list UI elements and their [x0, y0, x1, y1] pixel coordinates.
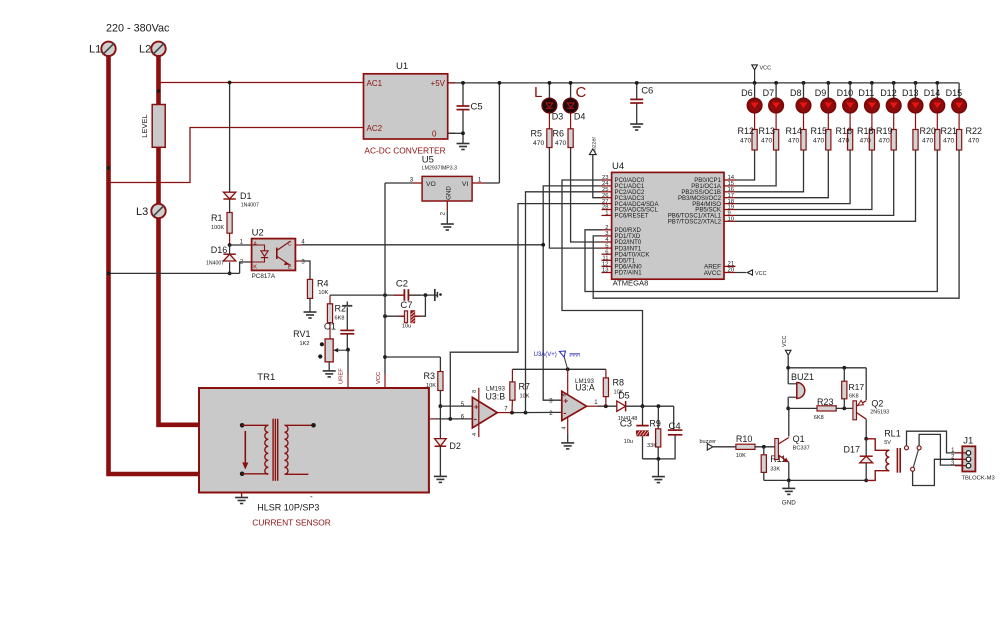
svg-text:L3: L3	[136, 206, 148, 218]
svg-text:11: 11	[602, 256, 608, 262]
svg-text:470: 470	[838, 137, 849, 144]
svg-text:470: 470	[761, 137, 772, 144]
svg-text:D5: D5	[618, 391, 630, 401]
svg-text:AVCC: AVCC	[704, 270, 722, 277]
svg-text:470: 470	[922, 137, 933, 144]
svg-text:R14: R14	[786, 126, 803, 136]
svg-text:HLSR 10P/SP3: HLSR 10P/SP3	[257, 503, 319, 513]
svg-text:U2: U2	[252, 228, 264, 239]
svg-text:VCC: VCC	[376, 372, 382, 384]
svg-text:D4: D4	[574, 112, 586, 122]
svg-text:C2: C2	[396, 279, 408, 290]
svg-text:R18: R18	[857, 126, 874, 136]
svg-text:D8: D8	[790, 88, 802, 98]
svg-text:D9: D9	[815, 88, 827, 98]
svg-text:PB7/TOSC2/XTAL2: PB7/TOSC2/XTAL2	[668, 219, 722, 226]
svg-text:4: 4	[562, 427, 568, 430]
svg-text:2: 2	[605, 225, 608, 231]
svg-text:5V: 5V	[884, 440, 891, 446]
svg-text:R1: R1	[211, 213, 223, 223]
svg-text:D16: D16	[211, 245, 228, 255]
svg-text:L2: L2	[139, 44, 151, 56]
svg-text:0: 0	[432, 129, 437, 138]
svg-text:C5: C5	[471, 102, 483, 113]
svg-text:VI: VI	[462, 181, 469, 188]
svg-text:U1: U1	[396, 61, 408, 72]
svg-text:PC6/RESET: PC6/RESET	[615, 213, 649, 220]
svg-text:470: 470	[555, 140, 566, 147]
svg-text:D12: D12	[880, 88, 897, 98]
svg-text:1N4007: 1N4007	[241, 203, 259, 209]
svg-text:U5: U5	[422, 155, 434, 166]
svg-text:100K: 100K	[211, 225, 224, 231]
svg-text:470: 470	[943, 137, 954, 144]
svg-text:R5: R5	[531, 129, 543, 139]
svg-text:U3:B: U3:B	[486, 391, 506, 401]
svg-text:-: -	[474, 414, 477, 425]
svg-text:BUZ1: BUZ1	[791, 372, 814, 382]
svg-text:TR1: TR1	[257, 372, 275, 383]
svg-text:4: 4	[472, 433, 478, 436]
svg-text:1K2: 1K2	[300, 341, 310, 347]
svg-text:U4: U4	[612, 161, 624, 172]
svg-text:12: 12	[602, 262, 609, 268]
svg-text:GND: GND	[446, 186, 453, 200]
svg-text:R19: R19	[876, 126, 893, 136]
svg-text:R13: R13	[759, 126, 776, 136]
svg-text:3: 3	[410, 177, 414, 184]
svg-text:C1: C1	[324, 322, 336, 333]
svg-text:1N4007: 1N4007	[206, 261, 224, 267]
svg-text:8: 8	[472, 390, 478, 393]
svg-text:VCC: VCC	[760, 66, 772, 72]
svg-text:D7: D7	[763, 88, 775, 98]
svg-text:2N5193: 2N5193	[870, 409, 889, 415]
svg-text:D2: D2	[449, 441, 461, 451]
svg-text:C7: C7	[400, 300, 412, 311]
svg-text:+: +	[563, 395, 568, 405]
svg-text:R9: R9	[649, 418, 661, 428]
svg-text:LEVEL: LEVEL	[140, 114, 149, 137]
svg-text:PC817A: PC817A	[252, 273, 276, 280]
svg-text:D11: D11	[858, 88, 874, 98]
svg-text:C6: C6	[641, 86, 653, 97]
svg-text:PD7/AIN1: PD7/AIN1	[615, 270, 643, 277]
svg-text:R20: R20	[920, 126, 937, 136]
svg-text:33K: 33K	[770, 467, 780, 473]
svg-text:470: 470	[740, 137, 751, 144]
svg-text:D17: D17	[843, 445, 860, 455]
svg-text:10K: 10K	[520, 394, 530, 400]
svg-text:L: L	[534, 84, 542, 101]
svg-text:D10: D10	[837, 88, 854, 98]
svg-text:R21: R21	[941, 126, 958, 136]
svg-text:C4: C4	[669, 421, 681, 432]
svg-text:D3: D3	[552, 112, 564, 122]
svg-text:C3: C3	[620, 419, 632, 430]
svg-text:D1: D1	[240, 191, 252, 201]
svg-text:470: 470	[879, 137, 890, 144]
svg-text:470: 470	[813, 137, 824, 144]
svg-text:D6: D6	[741, 88, 753, 98]
svg-text:AC2: AC2	[367, 124, 383, 133]
svg-text:10u: 10u	[402, 324, 411, 330]
svg-text:10K: 10K	[736, 453, 746, 459]
svg-text:10u: 10u	[624, 439, 633, 445]
svg-text:470: 470	[788, 137, 799, 144]
svg-text:TBLOCK-M3: TBLOCK-M3	[962, 476, 995, 482]
svg-text:L1: L1	[89, 44, 101, 56]
svg-text:GND: GND	[782, 500, 796, 507]
svg-text:RV1: RV1	[293, 329, 310, 339]
svg-text:UREF: UREF	[339, 368, 345, 384]
svg-text:R4: R4	[317, 279, 329, 289]
svg-text:J1: J1	[963, 436, 973, 447]
svg-text:R17: R17	[849, 382, 865, 392]
svg-text:K: K	[253, 265, 257, 271]
svg-text:6K8: 6K8	[814, 415, 824, 421]
svg-text:Q1: Q1	[793, 434, 805, 444]
svg-text:R16: R16	[836, 126, 853, 136]
svg-text:1: 1	[605, 211, 608, 217]
svg-text:1: 1	[478, 177, 482, 184]
svg-text:470: 470	[533, 140, 544, 147]
svg-text:LM2937IMP3.3: LM2937IMP3.3	[422, 166, 457, 172]
svg-text:33K: 33K	[647, 443, 657, 449]
svg-text:R10: R10	[736, 434, 753, 444]
svg-text:R3: R3	[423, 371, 435, 381]
svg-text:+5V: +5V	[431, 79, 446, 88]
svg-text:R7: R7	[519, 382, 531, 392]
svg-text:BC337: BC337	[793, 446, 810, 452]
svg-text:20: 20	[728, 268, 735, 274]
svg-text:D14: D14	[924, 88, 941, 98]
svg-text:C: C	[576, 84, 587, 101]
svg-text:R22: R22	[966, 126, 983, 136]
svg-text:U3:A: U3:A	[575, 383, 595, 393]
svg-text:6K8: 6K8	[849, 394, 859, 400]
svg-text:AC1: AC1	[367, 79, 383, 88]
svg-text:21: 21	[728, 262, 735, 268]
svg-text:-: -	[563, 408, 566, 419]
svg-text:Q2: Q2	[871, 399, 883, 409]
svg-text:CURRENT SENSOR: CURRENT SENSOR	[252, 518, 330, 528]
svg-text:D13: D13	[902, 88, 919, 98]
svg-text:R12: R12	[738, 126, 755, 136]
svg-text:D15: D15	[946, 88, 963, 98]
svg-text:R15: R15	[811, 126, 828, 136]
svg-text:R23: R23	[817, 397, 834, 407]
svg-text:220 - 380Vac: 220 - 380Vac	[106, 23, 170, 35]
svg-text:VCC: VCC	[782, 336, 788, 347]
svg-text:ATMEGA8: ATMEGA8	[613, 278, 649, 287]
svg-text:VO: VO	[426, 181, 436, 188]
svg-text:470: 470	[860, 137, 871, 144]
svg-text:RL1: RL1	[884, 429, 901, 439]
svg-text:10: 10	[728, 217, 735, 223]
svg-text:-: -	[310, 492, 313, 501]
svg-text:13: 13	[602, 268, 609, 274]
svg-text:470: 470	[968, 137, 979, 144]
svg-text:10K: 10K	[318, 290, 328, 296]
svg-text:VCC: VCC	[755, 271, 767, 277]
svg-text:R6: R6	[553, 129, 565, 139]
svg-text:U3A(V+): U3A(V+)	[534, 352, 557, 358]
svg-text:+: +	[474, 401, 479, 411]
svg-text:R8: R8	[613, 378, 625, 388]
